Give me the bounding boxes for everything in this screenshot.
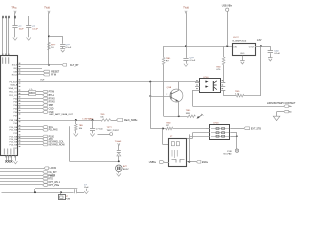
svg-text:KEYPAD_ROW: KEYPAD_ROW [49,144,66,147]
svg-text:1.8V: 1.8V [257,40,262,42]
svg-text:4.7k: 4.7k [29,89,32,91]
svg-text:0.1uF: 0.1uF [274,53,280,55]
svg-text:LOON: LOON [50,168,57,170]
svg-text:DIN: DIN [14,71,18,73]
svg-text:RTAG: RTAG [49,97,55,100]
svg-text:KLT_BT: KLT_BT [70,64,79,67]
svg-text:U?00: U?00 [203,77,209,79]
svg-text:CSD: CSD [49,109,54,111]
svg-text:ESDe: ESDe [202,162,209,164]
svg-text:10uF: 10uF [19,29,25,31]
svg-text:GND: GND [240,53,245,55]
svg-text:33R: 33R [186,113,190,115]
svg-text:USB VBle: USB VBle [222,6,233,8]
svg-text:TBD: TBD [79,125,84,127]
svg-text:0.1uF: 0.1uF [66,47,72,49]
svg-text:10k: 10k [100,117,103,119]
svg-text:C? 10n: C? 10n [96,129,104,131]
svg-text:TPcc: TPcc [11,7,17,9]
svg-text:U?00: U?00 [213,122,219,124]
svg-text:BUZZ: BUZZ [123,169,129,171]
svg-text:UIN: UIN [233,47,237,49]
svg-text:SCL: SCL [49,127,54,129]
svg-text:FLIM: FLIM [66,199,71,200]
svg-text:TVdd: TVdd [44,7,50,9]
svg-text:R W: R W [51,74,56,77]
svg-text:RTD: RTD [48,179,53,181]
svg-text:BTLo: BTLo [49,95,55,97]
svg-text:Reset: Reset [12,74,18,77]
svg-text:TEST_POINT: TEST_POINT [107,130,120,132]
svg-text:15pF: 15pF [84,187,89,189]
svg-text:GRP_BATT_DATA_OUT: GRP_BATT_DATA_OUT [49,113,74,116]
svg-text:RTAG: RTAG [49,101,55,104]
svg-text:P16_RA: P16_RA [9,144,17,147]
svg-text:USB5e: USB5e [149,162,157,164]
svg-text:TVdd: TVdd [183,7,189,9]
svg-text:0.1uF: 0.1uF [190,60,196,62]
svg-text:4.7k: 4.7k [29,92,32,94]
svg-text:OPT_WU.1: OPT_WU.1 [48,182,60,184]
svg-text:Q?A: Q?A [167,86,172,89]
svg-text:TBD: TBD [166,122,171,124]
svg-text:EXT_5TB: EXT_5TB [251,128,261,130]
svg-text:SBP: SBP [49,105,54,107]
svg-text:KEYPAD_COL: KEYPAD_COL [49,141,65,144]
svg-text:TP??: TP?? [107,127,113,129]
svg-text:TBD: TBD [216,66,221,68]
svg-text:B-158(PCB-3): B-158(PCB-3) [233,40,247,42]
svg-text:LiION BATTERY CONTACT: LiION BATTERY CONTACT [267,102,296,105]
svg-text:IRQ: IRQ [13,68,17,70]
svg-text:TVdd3: TVdd3 [115,141,122,143]
svg-text:P11_RA: P11_RA [10,129,18,132]
svg-text:PD_PAS: PD_PAS [49,129,58,132]
svg-text:PWER: PWER [48,175,55,177]
svg-text:XG_INT: XG_INT [48,172,57,174]
svg-text:SCLK: SCLK [12,65,18,67]
svg-text:P10_RA: P10_RA [9,126,17,129]
svg-text:NO_PAD: NO_PAD [224,153,233,156]
svg-text:PTIM: PTIM [49,92,55,94]
svg-text:TBD: TBD [166,58,171,60]
svg-text:P01_CO: P01_CO [9,95,17,97]
svg-text:LDO?: LDO? [233,37,239,39]
svg-text:SDA_A: SDA_A [10,84,17,87]
svg-text:P00_CO: P00_CO [9,92,17,94]
svg-text:ATK: ATK [49,138,54,141]
svg-text:UOUT: UOUT [249,47,255,49]
svg-text:2: 2 [166,94,167,96]
svg-text:OPT_ZWe: OPT_ZWe [48,185,60,187]
svg-text:OUT: OUT [40,79,45,81]
svg-text:P14_RA: P14_RA [9,138,17,141]
svg-text:Mach_SWBe: Mach_SWBe [124,120,138,122]
svg-text:0.1uF: 0.1uF [32,29,38,31]
svg-text:P13_RA: P13_RA [9,135,17,138]
svg-text:P0_B_R: P0_B_R [9,81,17,83]
svg-text:P15_RA: P15_RA [9,141,17,144]
svg-text:SDA_CO: SDA_CO [9,87,18,90]
svg-text:P08_RA: P08_RA [9,119,17,122]
